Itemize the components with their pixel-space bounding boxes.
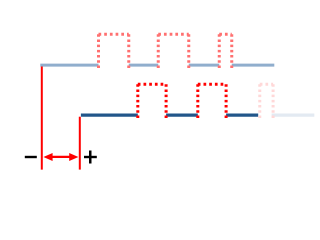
input pulse 2 falling edge — [187, 34, 190, 68]
input pulse 1 falling edge — [127, 34, 130, 68]
output pulse 3 (faded narrow) rising edge — [258, 84, 261, 118]
output pulse 3 (faded narrow) falling edge — [272, 84, 275, 118]
input pulse 3 (narrow) top edge — [219, 33, 232, 36]
wire input signal baseline segment 1 — [40, 64, 98, 67]
wire input signal baseline segment 2 — [129, 64, 159, 67]
wire output signal baseline segment 3 — [226, 113, 258, 116]
input pulse 1 top edge — [99, 33, 129, 36]
node delay arrowhead left — [43, 153, 52, 161]
wire output signal faded baseline segment 4 — [272, 113, 315, 116]
wire output signal baseline segment 1 — [81, 113, 138, 116]
output pulse 1 falling edge — [165, 84, 168, 118]
node plus label — [84, 156, 97, 158]
input pulse 3 (narrow) falling edge — [230, 34, 233, 68]
output pulse 1 rising edge — [136, 84, 139, 118]
wire delay marker left vertical line — [41, 67, 43, 170]
wire input signal baseline segment 3 — [189, 64, 220, 67]
input pulse 1 rising edge — [97, 34, 100, 68]
node minus label — [25, 156, 37, 158]
output pulse 3 (faded narrow) top edge — [260, 83, 273, 86]
output pulse 1 top edge — [138, 83, 166, 86]
output pulse 2 falling edge — [225, 84, 228, 118]
input pulse 2 rising edge — [157, 34, 160, 68]
wire input signal baseline segment 4 — [232, 64, 275, 67]
input pulse 2 top edge — [158, 33, 189, 36]
output pulse 2 top edge — [198, 83, 226, 86]
wire delay arrow shaft — [50, 156, 72, 158]
node delay arrowhead right — [69, 153, 78, 161]
wire delay marker right vertical line — [79, 117, 81, 170]
wire output signal baseline segment 2 — [166, 113, 198, 116]
output pulse 2 rising edge — [196, 84, 199, 118]
input pulse 3 (narrow) rising edge — [218, 34, 221, 68]
